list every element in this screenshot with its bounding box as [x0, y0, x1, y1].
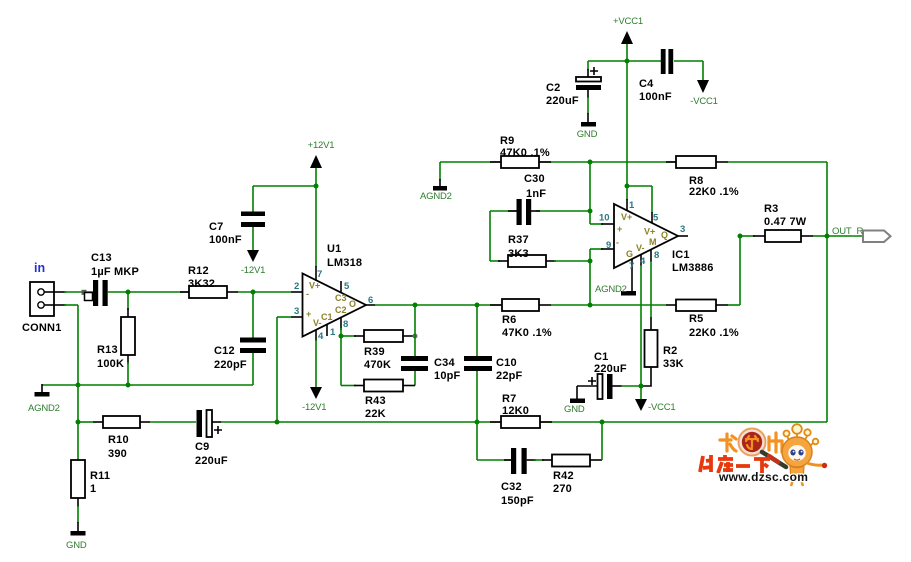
svg-text:C2: C2 [546, 82, 560, 94]
U1 pin 6 stub [366, 304, 375, 306]
svg-text:R39: R39 [364, 346, 385, 358]
wire +12V1 rail to U1 pin7 [315, 186, 317, 267]
svg-text:U1: U1 [327, 243, 341, 255]
svg-text:R42: R42 [553, 470, 574, 482]
svg-text:R43: R43 [365, 395, 386, 407]
IC1 pin function labels [616, 212, 668, 259]
svg-text:R37: R37 [508, 234, 529, 246]
U1 pin 1 stub [326, 324, 328, 336]
resistor R3 0.47 7W [740, 203, 827, 242]
resistor R13 100K [97, 292, 135, 385]
svg-text:3K3: 3K3 [508, 248, 529, 260]
resistor R5 22K0 .1% [666, 300, 740, 340]
op-amp IC1 LM3886 [614, 204, 714, 274]
svg-text:7: 7 [629, 261, 634, 272]
ground GND of C2 [577, 122, 598, 140]
wire C12 to AGND row [252, 353, 254, 385]
svg-text:C9: C9 [195, 441, 209, 453]
IC1 pin 4 stub [640, 255, 642, 387]
svg-text:C7: C7 [209, 221, 223, 233]
svg-text:in: in [34, 261, 45, 275]
power -12V1 below C7 [241, 227, 265, 276]
capacitor C10 22pF [464, 356, 523, 382]
svg-text:8: 8 [654, 250, 659, 261]
capacitor C1 220uF [577, 351, 641, 399]
svg-text:AGND2: AGND2 [595, 284, 627, 295]
wire C12 riser [252, 292, 254, 338]
junction [475, 420, 480, 425]
junction [314, 184, 319, 189]
svg-text:C3: C3 [335, 293, 347, 303]
connector CONN1 [22, 282, 62, 334]
svg-text:-VCC1: -VCC1 [648, 402, 676, 413]
wire supply cap row [588, 60, 703, 62]
power +12V1 [308, 140, 335, 186]
wire U1 output row [375, 304, 502, 306]
U1 pin 8 stub [340, 317, 342, 336]
svg-text:CONN1: CONN1 [22, 322, 62, 334]
ground GND of R11 [66, 531, 87, 551]
wire R42 riser [601, 422, 603, 460]
svg-text:LM3886: LM3886 [672, 262, 714, 274]
wire R6 to R5 [551, 304, 666, 306]
svg-text:R12: R12 [188, 265, 209, 277]
power -VCC1 bottom [635, 386, 676, 413]
resistor R43 22K [341, 380, 415, 421]
svg-text:3: 3 [680, 224, 685, 235]
wire +VCC1 rail [626, 61, 628, 186]
IC1 pin 5 stub [651, 186, 653, 224]
svg-text:V-: V- [636, 243, 645, 253]
svg-text:R11: R11 [90, 470, 110, 482]
wire vertical to pin10 [590, 162, 603, 224]
junction [825, 234, 830, 239]
svg-text:+: + [306, 309, 311, 319]
svg-text:47K0 .1%: 47K0 .1% [502, 327, 552, 339]
U1 pin 3 stub [291, 316, 303, 318]
svg-text:47K0 .1%: 47K0 .1% [500, 147, 550, 159]
svg-text:R3: R3 [764, 203, 778, 215]
svg-text:390: 390 [108, 448, 127, 460]
svg-text:22K: 22K [365, 408, 386, 420]
svg-text:GND: GND [66, 540, 87, 551]
svg-text:C12: C12 [214, 345, 235, 357]
svg-text:1nF: 1nF [526, 188, 546, 200]
junction [625, 184, 630, 189]
svg-text:G: G [626, 249, 633, 259]
resistor R39 470K [341, 330, 415, 371]
IC1 pin 10 stub [601, 223, 614, 225]
wire U1 pin3 riser [277, 317, 291, 422]
svg-text:+VCC1: +VCC1 [613, 16, 643, 27]
wire CONN1 pin2 down [54, 305, 78, 385]
svg-text:150pF: 150pF [501, 495, 534, 507]
capacitor C2 220uF [546, 61, 601, 122]
U1 pin function labels [306, 281, 356, 329]
svg-text:+: + [617, 224, 622, 234]
svg-text:22K0 .1%: 22K0 .1% [689, 186, 739, 198]
resistor R2 33K [641, 317, 684, 386]
svg-text:220uF: 220uF [195, 455, 228, 467]
svg-text:M: M [649, 237, 657, 247]
svg-text:V+: V+ [644, 227, 655, 237]
junction [588, 160, 593, 165]
svg-text:270: 270 [553, 483, 572, 495]
net flag OUT_R [832, 226, 891, 242]
svg-text:4: 4 [318, 331, 324, 342]
wire C7 branch [253, 186, 316, 212]
svg-text:C34: C34 [434, 357, 455, 369]
junction [600, 420, 605, 425]
U1 pin 7 stub [315, 266, 317, 281]
SEC1 [22, 252, 291, 551]
wire R5 riser [739, 236, 741, 305]
resistor R6 47K0 .1% [490, 299, 552, 339]
junction pin8 node [339, 334, 344, 339]
svg-text:470K: 470K [364, 359, 391, 371]
resistor R9 47K0 .1% [490, 135, 551, 168]
IC1 pin 7 stub [631, 259, 633, 291]
svg-text:GND: GND [564, 404, 585, 415]
svg-text:R13: R13 [97, 344, 118, 356]
wire R43 left leg [340, 336, 342, 386]
op-amp U1 LM318 [303, 243, 367, 337]
svg-text:GND: GND [577, 129, 598, 140]
svg-text:220uF: 220uF [546, 95, 579, 107]
svg-text:R10: R10 [108, 434, 129, 446]
svg-text:V+: V+ [309, 281, 320, 291]
wire to R11 and R10 [77, 385, 79, 460]
ground AGND2 input [28, 384, 60, 414]
svg-text:Q: Q [661, 230, 668, 240]
capacitor C7 100nF [209, 212, 265, 247]
capacitor C34 10pF [401, 356, 461, 382]
SEC3 [420, 135, 891, 422]
IC1 pin 9 stub [601, 248, 614, 250]
resistor R7 12K0 [490, 393, 552, 428]
svg-text:O: O [349, 299, 356, 309]
junction [475, 303, 480, 308]
capacitor C9 220uF [195, 410, 277, 467]
svg-text:7: 7 [317, 269, 322, 280]
junction [251, 290, 256, 295]
SEC4 [700, 424, 827, 486]
wire main bottom row [277, 421, 827, 423]
svg-text:220pF: 220pF [214, 359, 247, 371]
svg-text:100nF: 100nF [209, 234, 242, 246]
svg-text:22K0 .1%: 22K0 .1% [689, 327, 739, 339]
junction [588, 209, 593, 214]
junction [413, 303, 418, 308]
power -VCC1 top [690, 61, 718, 107]
node stub [82, 290, 93, 301]
svg-text:100K: 100K [97, 358, 124, 370]
svg-text:V+: V+ [621, 212, 632, 222]
resistor R42 270 [527, 455, 602, 496]
svg-text:6: 6 [368, 295, 373, 306]
wire R12 to U1 pin2 [238, 291, 291, 293]
svg-text:www.dzsc.com: www.dzsc.com [718, 470, 808, 484]
svg-text:2: 2 [294, 281, 299, 292]
wire C30 R37 left leg [489, 211, 491, 261]
svg-text:OUT_R: OUT_R [832, 226, 864, 237]
IC1 pin numbers [599, 200, 685, 272]
IC1 pin 3 stub [678, 235, 688, 237]
wire C32 branch [477, 422, 511, 460]
IC1 pin 8 stub [650, 250, 652, 317]
svg-text:9: 9 [606, 240, 611, 251]
svg-text:5: 5 [653, 213, 659, 224]
junction [76, 420, 81, 425]
resistor R10 390 [78, 416, 196, 460]
U1 pin numbers [294, 269, 373, 342]
resistor R11 1 [71, 460, 110, 531]
ground AGND2 of IC1 [595, 284, 636, 296]
svg-text:3: 3 [294, 306, 299, 317]
svg-text:220uF: 220uF [594, 363, 627, 375]
svg-text:8: 8 [343, 319, 348, 330]
power +VCC1 [613, 16, 643, 61]
svg-text:1: 1 [330, 327, 336, 338]
U1 pin 2 stub [291, 291, 303, 293]
junction [275, 420, 280, 425]
svg-text:0.47 7W: 0.47 7W [764, 216, 807, 228]
junction [76, 383, 81, 388]
junction [126, 290, 131, 295]
svg-text:4: 4 [640, 256, 646, 267]
svg-text:+12V1: +12V1 [308, 140, 335, 151]
svg-text:-12V1: -12V1 [241, 265, 265, 276]
junction R39 right [413, 334, 418, 339]
svg-text:C2: C2 [335, 305, 347, 315]
capacitor C32 150pF [501, 448, 534, 507]
svg-text:AGND2: AGND2 [420, 191, 452, 202]
svg-text:C4: C4 [639, 78, 654, 90]
junction [625, 59, 630, 64]
svg-text:100nF: 100nF [639, 91, 672, 103]
SEC2 [277, 243, 827, 507]
svg-text:C13: C13 [91, 252, 112, 264]
wire C10 leg [476, 305, 478, 422]
svg-text:10pF: 10pF [434, 370, 461, 382]
svg-text:-12V1: -12V1 [302, 402, 326, 413]
svg-text:33K: 33K [663, 358, 684, 370]
svg-text:10: 10 [599, 213, 610, 224]
junction [588, 303, 593, 308]
wire to R6 node [589, 261, 591, 305]
wire R9 feedback row [440, 162, 676, 186]
svg-text:R6: R6 [502, 314, 516, 326]
watermark logo dzsc [700, 424, 827, 486]
svg-text:5: 5 [344, 281, 350, 292]
svg-text:C1: C1 [321, 312, 333, 322]
power -12V1 below U1 [302, 387, 326, 413]
wire C13 to R12 [108, 291, 189, 293]
wire to OUT flag [827, 235, 864, 237]
junction [126, 383, 131, 388]
U1 pin 5 stub [340, 281, 342, 293]
svg-text:IC1: IC1 [672, 249, 690, 261]
svg-text:R7: R7 [502, 393, 516, 405]
wire CONN1 pin1 to C13 [54, 291, 93, 293]
svg-text:R9: R9 [500, 135, 514, 147]
svg-text:1: 1 [629, 200, 635, 211]
svg-text:C32: C32 [501, 481, 522, 493]
wire C34 leg [414, 305, 416, 386]
svg-text:C30: C30 [524, 173, 545, 185]
svg-text:R5: R5 [689, 313, 703, 325]
capacitor C4 100nF [639, 49, 673, 103]
svg-text:LM318: LM318 [327, 257, 362, 269]
svg-text:12K0: 12K0 [502, 405, 529, 417]
svg-text:22pF: 22pF [496, 370, 523, 382]
svg-text:-: - [616, 238, 619, 248]
svg-text:-VCC1: -VCC1 [690, 96, 718, 107]
svg-text:1µF MKP: 1µF MKP [91, 266, 139, 278]
svg-text:3K32: 3K32 [188, 278, 215, 290]
wire AGND2 row [42, 384, 253, 386]
resistor R12 3K32 [180, 265, 238, 298]
capacitor C30 1nF [517, 173, 547, 225]
junction [738, 234, 743, 239]
wire right rail [826, 162, 828, 422]
capacitor C12 220pF [214, 338, 266, 372]
IC1 pin 1 stub [626, 186, 628, 211]
ground AGND2 of R9 [420, 186, 452, 202]
capacitor C13 1uF MKP [91, 252, 139, 306]
svg-text:R2: R2 [663, 345, 677, 357]
junction [639, 384, 644, 389]
wire pin1 to pin5 jumper [627, 185, 652, 187]
svg-text:C10: C10 [496, 357, 517, 369]
wire to pin9 [590, 249, 603, 261]
U1 pin 4 stub [315, 330, 317, 387]
svg-text:1: 1 [90, 483, 96, 495]
junction [588, 259, 593, 264]
resistor R8 22K0 .1% [666, 156, 827, 198]
ground GND of C1 [564, 386, 585, 415]
svg-text:AGND2: AGND2 [28, 403, 60, 414]
svg-text:C1: C1 [594, 351, 608, 363]
wire C30 row [490, 210, 590, 212]
svg-text:-: - [306, 289, 309, 299]
resistor R37 3K3 [490, 234, 590, 267]
